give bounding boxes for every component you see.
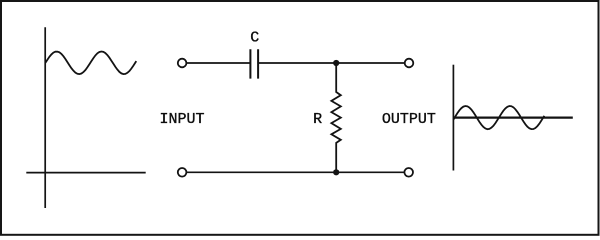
terminal bottom-left <box>178 168 187 177</box>
output graph horizontal axis <box>453 116 572 118</box>
wire top-left to capacitor <box>187 62 250 64</box>
output graph vertical axis <box>452 65 454 171</box>
capacitor C1 plates <box>250 49 258 78</box>
svg-text:OUTPUT: OUTPUT <box>382 111 436 128</box>
output sine waveform <box>453 106 544 129</box>
wire bottom <box>187 171 404 173</box>
terminal top-left <box>178 59 187 68</box>
input sine waveform <box>45 52 136 75</box>
wire capacitor to top-right terminal <box>258 62 404 64</box>
input graph horizontal axis <box>26 172 145 174</box>
svg-text:C: C <box>250 29 259 46</box>
input graph vertical axis <box>44 27 46 208</box>
node bottom junction <box>333 169 339 175</box>
svg-text:INPUT: INPUT <box>160 111 205 128</box>
terminal top-right <box>405 59 414 68</box>
resistor R1 <box>331 63 340 172</box>
node top junction <box>333 60 339 66</box>
terminal bottom-right <box>404 168 413 177</box>
svg-text:R: R <box>313 111 322 128</box>
